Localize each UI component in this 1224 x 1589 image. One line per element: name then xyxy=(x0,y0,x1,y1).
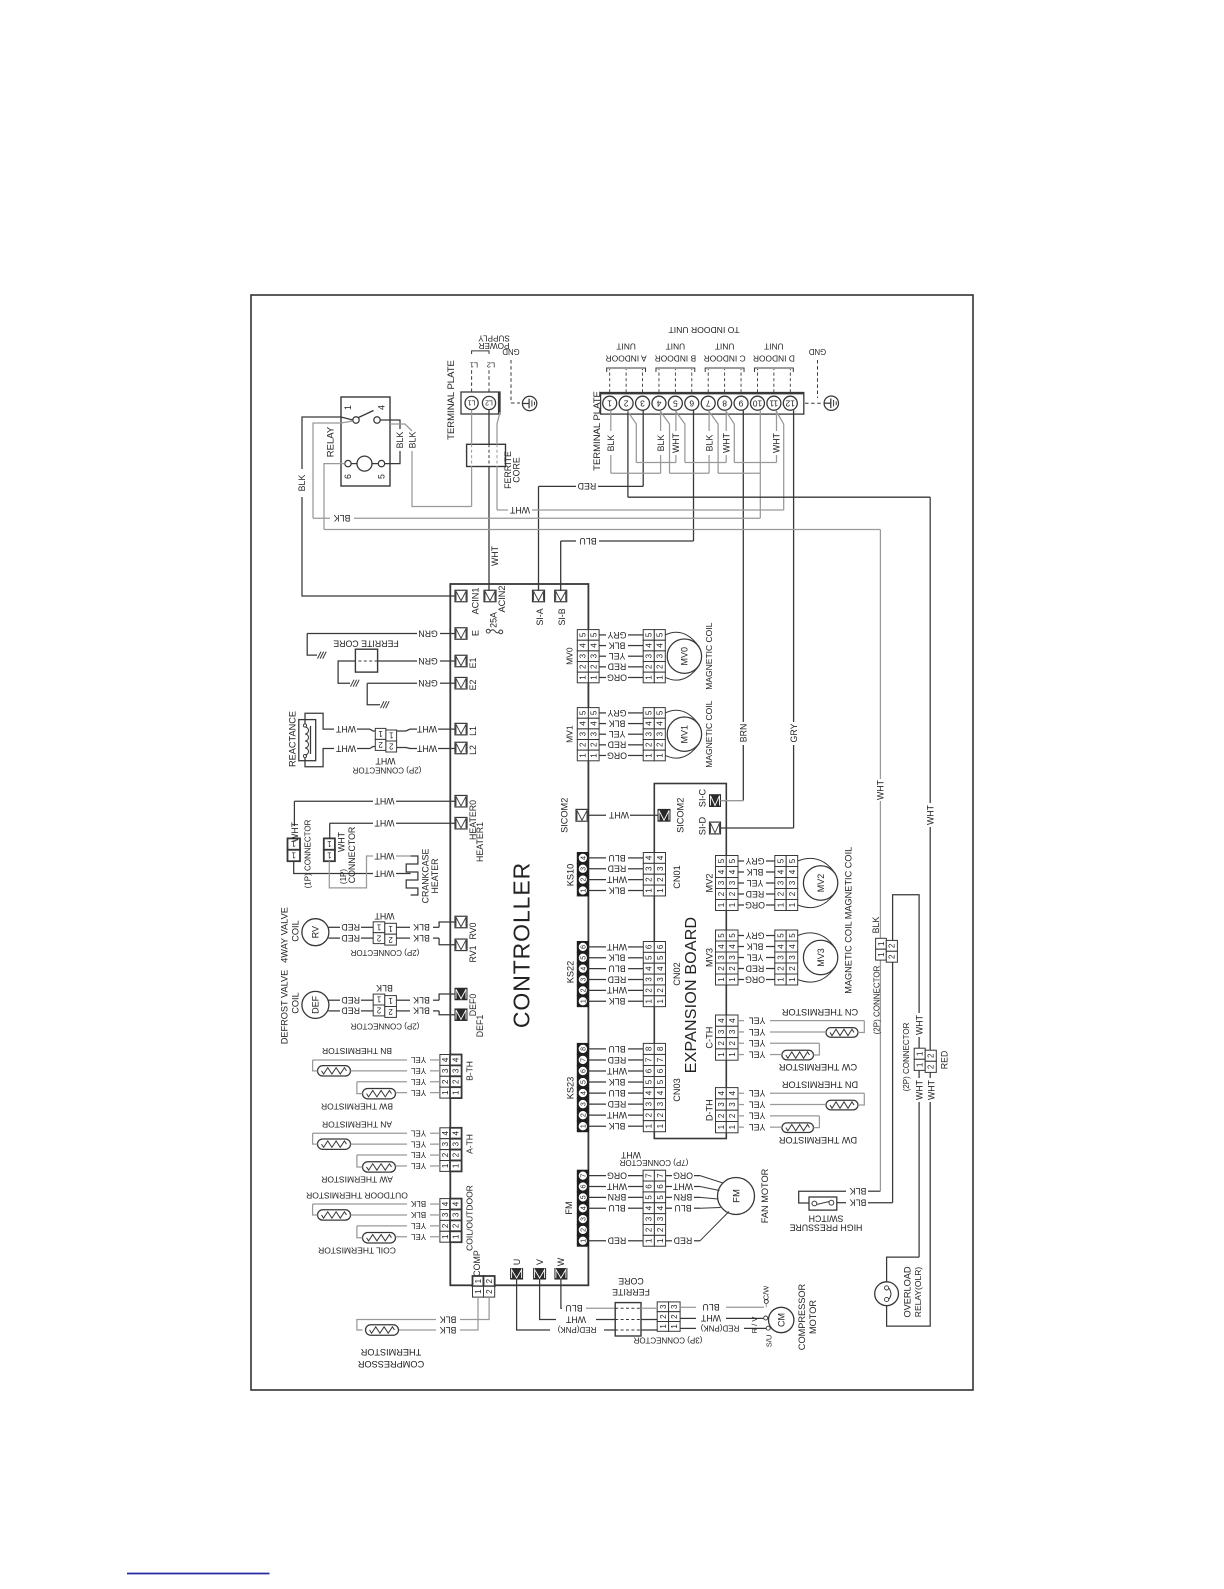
svg-text:WHT: WHT xyxy=(374,851,395,861)
wire switch return up through 2P xyxy=(892,962,894,1203)
relay contact 4 xyxy=(374,417,380,423)
svg-text:5: 5 xyxy=(656,955,665,960)
svg-text:CONTROLLER: CONTROLLER xyxy=(508,862,534,1028)
connector COIL/OUTDOOR board side xyxy=(450,1199,462,1210)
svg-text:A INDOOR: A INDOOR xyxy=(606,353,647,363)
svg-text:BLK: BLK xyxy=(609,996,626,1006)
svg-text:1: 1 xyxy=(441,1163,450,1168)
svg-text:1: 1 xyxy=(788,977,797,982)
svg-text:(2P) CONNECTOR: (2P) CONNECTOR xyxy=(352,766,421,775)
wire MV1 pin4 BLK xyxy=(599,723,606,725)
svg-text:3: 3 xyxy=(452,1141,461,1146)
dashed GND lead (indoor) xyxy=(817,360,819,398)
svg-text:4: 4 xyxy=(717,944,726,949)
svg-text:4: 4 xyxy=(776,944,785,949)
svg-text:6: 6 xyxy=(580,1184,587,1188)
indoor terminal 6 xyxy=(685,396,699,410)
svg-text:2: 2 xyxy=(645,988,654,993)
svg-text:BLU: BLU xyxy=(579,536,596,546)
svg-text:4: 4 xyxy=(656,1205,665,1210)
svg-text:COIL: COIL xyxy=(290,992,300,1013)
svg-text:3: 3 xyxy=(579,731,588,736)
svg-text:RED(PNK): RED(PNK) xyxy=(557,1325,596,1334)
svg-text:MAGNETIC COIL: MAGNETIC COIL xyxy=(843,847,853,920)
svg-text:BLK: BLK xyxy=(704,435,714,452)
svg-text:4: 4 xyxy=(776,869,785,874)
svg-text:RED: RED xyxy=(746,889,765,899)
connector MV2 board side xyxy=(716,856,727,867)
wire GRN E to chassis ground xyxy=(440,633,455,635)
svg-text:1: 1 xyxy=(441,1090,450,1095)
pin SI-C xyxy=(710,795,721,807)
svg-text:8: 8 xyxy=(722,398,727,408)
AN THERMISTOR thermistor element xyxy=(318,1139,351,1149)
svg-text:1: 1 xyxy=(441,1234,450,1239)
2P connector (right upper) xyxy=(876,938,887,949)
svg-text:WHT: WHT xyxy=(927,1079,937,1100)
svg-text:SI-B: SI-B xyxy=(557,608,567,625)
svg-text:BLK: BLK xyxy=(413,933,430,943)
wire MV2 pin2 RED xyxy=(738,893,744,895)
indoor terminal 8 xyxy=(718,396,732,410)
wire DEF to 2P (RED) top xyxy=(328,999,340,1001)
svg-text:5: 5 xyxy=(645,1195,654,1200)
svg-text:3: 3 xyxy=(656,731,665,736)
svg-text:1: 1 xyxy=(645,675,654,680)
svg-text:BW THERMISTOR: BW THERMISTOR xyxy=(321,1101,393,1111)
svg-text:3: 3 xyxy=(656,1101,665,1106)
svg-text:COIL/OUTDOOR: COIL/OUTDOOR xyxy=(465,1185,475,1251)
svg-text:WHT: WHT xyxy=(606,1181,627,1191)
svg-text:BLK: BLK xyxy=(609,718,626,728)
svg-text:3: 3 xyxy=(452,1068,461,1073)
svg-text:D-TH: D-TH xyxy=(704,1099,714,1121)
magnetic coil MV2 xyxy=(803,866,837,900)
svg-text:RED: RED xyxy=(608,1236,627,1246)
wire OLR bottom loop to t2 line xyxy=(887,1102,931,1326)
svg-text:4: 4 xyxy=(645,966,654,971)
2P connector (right lower) xyxy=(914,1048,925,1059)
svg-text:BRN: BRN xyxy=(738,724,748,743)
svg-text:GRY: GRY xyxy=(607,708,626,718)
wire MV2 pin1 ORG xyxy=(738,904,744,906)
svg-text:L1: L1 xyxy=(470,360,478,369)
svg-text:2: 2 xyxy=(788,966,797,971)
svg-text:BLK: BLK xyxy=(413,1006,430,1016)
svg-text:1: 1 xyxy=(728,1124,737,1129)
wire 2P to L1 pin xyxy=(397,730,406,732)
svg-text:5: 5 xyxy=(717,858,726,863)
connector C-TH board side xyxy=(716,1015,727,1026)
svg-text:2: 2 xyxy=(670,1314,679,1319)
svg-text:1: 1 xyxy=(877,952,886,957)
svg-text:1: 1 xyxy=(728,977,737,982)
svg-text:1: 1 xyxy=(659,1324,668,1329)
svg-text:DN THERMISTOR: DN THERMISTOR xyxy=(782,1079,859,1089)
svg-text:EXPANSION BOARD: EXPANSION BOARD xyxy=(683,917,700,1074)
svg-text:2: 2 xyxy=(579,664,588,669)
svg-text:UNIT: UNIT xyxy=(764,342,784,352)
wire FM RED (left) xyxy=(588,1240,606,1242)
wire U RED(PNK) xyxy=(517,1279,550,1330)
svg-text:1: 1 xyxy=(291,851,296,860)
pin SI-A xyxy=(533,590,545,602)
svg-text:4: 4 xyxy=(645,1090,654,1095)
wire KS22 pin 2 WHT xyxy=(588,989,606,991)
svg-text:B INDOOR: B INDOOR xyxy=(655,353,696,363)
svg-text:2: 2 xyxy=(728,891,737,896)
svg-text:YEL: YEL xyxy=(410,1139,426,1148)
svg-text:(3P) CONNECTOR: (3P) CONNECTOR xyxy=(633,1336,702,1345)
svg-text:CW THERMISTOR: CW THERMISTOR xyxy=(779,1062,858,1072)
wire MV3 pin2 RED xyxy=(738,968,744,970)
svg-text:5: 5 xyxy=(580,956,587,960)
wire t7 BLK drop xyxy=(708,410,710,431)
wire SICOM2 WHT xyxy=(588,814,606,816)
high pressure switch box xyxy=(809,1197,837,1210)
pin ACIN1 xyxy=(455,590,467,602)
svg-text:WHT: WHT xyxy=(606,985,627,995)
wire FM BLU (right) to motor xyxy=(666,1207,672,1209)
svg-text:3: 3 xyxy=(645,1216,654,1221)
terminal plate (power supply) xyxy=(461,392,500,414)
2P connector (DEF) xyxy=(373,994,385,1005)
indoor terminal 9 xyxy=(734,396,748,410)
svg-text:5: 5 xyxy=(590,710,599,715)
ferrite core (E1 line) xyxy=(355,649,377,672)
3P connector xyxy=(657,1302,668,1312)
wire 1P-2 to crankcase heater (top) xyxy=(329,856,373,888)
svg-text:MV2: MV2 xyxy=(816,874,826,893)
pin E xyxy=(455,628,467,640)
svg-text:(2P) CONNECTOR: (2P) CONNECTOR xyxy=(872,965,881,1034)
svg-text:GRN: GRN xyxy=(418,656,438,666)
svg-text:4: 4 xyxy=(452,1130,461,1135)
svg-text:BLK: BLK xyxy=(297,475,307,492)
svg-text:4: 4 xyxy=(580,1206,587,1210)
svg-text:REACTANCE: REACTANCE xyxy=(287,711,297,767)
wire B-TH pin1 xyxy=(430,1092,440,1094)
wire switch to 2P BLK xyxy=(837,1202,846,1204)
svg-text:COMPRESSOR: COMPRESSOR xyxy=(797,1283,807,1350)
CM terminal S/U xyxy=(766,1326,770,1330)
wire D-TH pin1 YEL xyxy=(738,1126,744,1128)
svg-text:BLK: BLK xyxy=(747,867,764,877)
svg-text:YEL: YEL xyxy=(747,952,764,962)
svg-text:5: 5 xyxy=(728,933,737,938)
svg-text:3: 3 xyxy=(645,1101,654,1106)
svg-text:D INDOOR: D INDOOR xyxy=(753,353,795,363)
svg-text:WHT: WHT xyxy=(914,1079,924,1100)
svg-text:MV1: MV1 xyxy=(565,725,575,743)
svg-text:YEL: YEL xyxy=(609,651,626,661)
svg-text:WHT: WHT xyxy=(606,1110,627,1120)
wire MV1 pin5 GRY xyxy=(599,712,606,714)
wire B-TH pin2 xyxy=(430,1081,440,1083)
2P connector (RV) xyxy=(373,922,385,933)
WHT power bus xyxy=(497,509,508,511)
svg-text:SICOM2: SICOM2 xyxy=(675,798,685,833)
svg-text:8: 8 xyxy=(645,1046,654,1051)
svg-text:GRY: GRY xyxy=(745,856,764,866)
svg-text:COMPRESSOR: COMPRESSOR xyxy=(357,1359,424,1369)
wire MV3 pin5 GRY xyxy=(738,935,744,937)
svg-text:2: 2 xyxy=(888,954,897,959)
svg-text:4: 4 xyxy=(656,855,665,860)
svg-text:1: 1 xyxy=(717,1052,726,1057)
svg-text:4: 4 xyxy=(590,643,599,648)
svg-text:RELAY(OLR): RELAY(OLR) xyxy=(913,1267,923,1318)
svg-text:2: 2 xyxy=(776,966,785,971)
svg-text:CN03: CN03 xyxy=(672,1078,682,1102)
svg-text:ACIN2: ACIN2 xyxy=(497,585,507,612)
svg-text:WHT: WHT xyxy=(374,868,395,878)
connector MV3 harness side xyxy=(775,930,786,941)
svg-text:1: 1 xyxy=(590,753,599,758)
wire 3P to CM RED(PNK) xyxy=(680,1327,696,1329)
wire COIL/OUTDOOR pin1 xyxy=(430,1236,440,1238)
wire KS10 pin 2 WHT xyxy=(588,879,606,881)
svg-text:5: 5 xyxy=(788,858,797,863)
svg-text:MAGNETIC COIL: MAGNETIC COIL xyxy=(704,700,714,767)
DN THERMISTOR element xyxy=(826,1100,858,1110)
ferrite core (power lines) xyxy=(467,444,506,466)
svg-text:BLK: BLK xyxy=(850,1198,867,1208)
indoor terminal 10 xyxy=(750,396,764,410)
svg-text:GRN: GRN xyxy=(418,628,438,638)
pin E2 xyxy=(455,677,467,689)
svg-text:AW THERMISTOR: AW THERMISTOR xyxy=(321,1175,393,1185)
svg-text:ORG: ORG xyxy=(745,900,765,910)
svg-text:3: 3 xyxy=(728,1029,737,1034)
svg-text:4: 4 xyxy=(441,1130,450,1135)
svg-text:1: 1 xyxy=(656,1238,665,1243)
svg-text:3: 3 xyxy=(580,1217,587,1221)
connector A-TH board side xyxy=(450,1128,462,1139)
svg-text:MV1: MV1 xyxy=(680,725,690,744)
wire HEATER1 to 1P connector 2 xyxy=(396,822,455,824)
svg-text:BLK: BLK xyxy=(413,995,430,1005)
wire MV3 pin3 YEL xyxy=(738,957,744,959)
svg-text:1: 1 xyxy=(645,1238,654,1243)
svg-text:YEL: YEL xyxy=(410,1088,426,1097)
connector B-TH harness side xyxy=(440,1055,450,1066)
svg-text:SI-D: SI-D xyxy=(697,816,707,835)
svg-text:HEATER1: HEATER1 xyxy=(475,822,485,862)
connector 7P harness pair xyxy=(643,1170,654,1181)
svg-text:L2: L2 xyxy=(468,745,478,755)
svg-text:1: 1 xyxy=(327,851,332,860)
svg-text:WHT: WHT xyxy=(374,818,395,828)
svg-text:GRY: GRY xyxy=(745,930,764,940)
svg-text:3: 3 xyxy=(645,653,654,658)
compressor thermistor element xyxy=(366,1325,399,1335)
svg-text:2: 2 xyxy=(452,1079,461,1084)
pin SICOM2 (expansion) xyxy=(658,809,670,821)
svg-text:WHT: WHT xyxy=(374,796,395,806)
magnetic coil MV3 xyxy=(803,940,837,974)
svg-text:RED: RED xyxy=(578,481,597,491)
svg-text:A-TH: A-TH xyxy=(465,1134,475,1154)
svg-text:2: 2 xyxy=(728,966,737,971)
svg-text:DEF: DEF xyxy=(311,995,321,1014)
svg-text:WHT: WHT xyxy=(876,779,886,800)
svg-text:6: 6 xyxy=(656,1068,665,1073)
svg-text:DW THERMISTOR: DW THERMISTOR xyxy=(779,1135,858,1145)
connector MV1 harness side xyxy=(643,708,654,719)
wire t2 return up xyxy=(929,827,931,1050)
page border frame xyxy=(251,295,973,1390)
earth ground symbol (indoor) xyxy=(824,396,838,410)
connector FM (controller edge) xyxy=(577,1170,588,1181)
svg-text:C/W: C/W xyxy=(762,1285,771,1301)
4-way valve coil RV xyxy=(302,919,329,946)
svg-text:YEL: YEL xyxy=(410,1150,426,1159)
ferrite core (3P lines) xyxy=(615,1303,641,1336)
pin DEF1 xyxy=(455,1009,467,1021)
svg-text:1: 1 xyxy=(645,888,654,893)
svg-text:WHT: WHT xyxy=(416,743,437,753)
wire t7 jog xyxy=(709,411,718,473)
svg-text:1: 1 xyxy=(452,1234,461,1239)
svg-text:1: 1 xyxy=(474,1278,483,1283)
svg-text:WHT: WHT xyxy=(490,545,500,566)
wire D-TH pin4 YEL xyxy=(738,1092,744,1094)
defrost valve coil DEF xyxy=(302,991,329,1018)
svg-text:ORG: ORG xyxy=(745,974,765,984)
svg-text:1: 1 xyxy=(656,998,665,1003)
wire t4 jog xyxy=(660,411,669,473)
svg-text:5: 5 xyxy=(645,632,654,637)
svg-text:BLK: BLK xyxy=(606,435,616,452)
pin DEF0 xyxy=(455,988,467,1000)
svg-text:1: 1 xyxy=(607,398,612,408)
connector D-TH board side xyxy=(716,1088,727,1099)
dashed GND lead (power) xyxy=(510,360,512,403)
svg-text:MV2: MV2 xyxy=(704,874,714,893)
svg-text:6: 6 xyxy=(689,398,694,408)
pin HEATER1 xyxy=(455,817,467,829)
wire KS23 pin 3 RED xyxy=(588,1103,606,1105)
svg-text:2: 2 xyxy=(623,398,628,408)
svg-text:UNIT: UNIT xyxy=(666,342,686,352)
svg-text:L2: L2 xyxy=(485,399,493,406)
AW THERMISTOR thermistor element xyxy=(363,1162,396,1172)
wire KS22 pin 3 RED xyxy=(588,979,606,981)
pin U xyxy=(511,1269,523,1280)
wire t3 drop (RED) xyxy=(642,410,644,486)
svg-text:6: 6 xyxy=(645,1068,654,1073)
svg-text:WHT: WHT xyxy=(772,432,782,453)
svg-text:1: 1 xyxy=(788,902,797,907)
svg-text:2: 2 xyxy=(717,1040,726,1045)
indoor terminal 2 xyxy=(619,396,633,410)
connector CN01 (expansion edge) xyxy=(643,853,654,864)
crankcase heater element xyxy=(406,856,418,895)
svg-text:2: 2 xyxy=(927,1053,936,1058)
svg-text:RED: RED xyxy=(746,963,765,973)
svg-text:RED: RED xyxy=(674,1236,693,1246)
indoor terminal 4 xyxy=(652,396,666,410)
svg-text:RED: RED xyxy=(341,933,360,943)
svg-text:2: 2 xyxy=(656,988,665,993)
svg-text:COIL THERMISTOR: COIL THERMISTOR xyxy=(318,1246,396,1256)
svg-text:TO INDOOR UNIT: TO INDOOR UNIT xyxy=(668,325,740,335)
svg-text:BLU: BLU xyxy=(608,1203,625,1213)
wire D-TH pin3 YEL xyxy=(738,1104,744,1106)
svg-text:YEL: YEL xyxy=(749,1015,766,1025)
svg-text:1: 1 xyxy=(645,998,654,1003)
svg-text:4: 4 xyxy=(580,1091,587,1095)
svg-text:3: 3 xyxy=(656,977,665,982)
svg-text:1: 1 xyxy=(877,941,886,946)
svg-text:FM: FM xyxy=(731,1189,742,1203)
BLK power bus (from relay) xyxy=(313,517,330,519)
svg-text:6: 6 xyxy=(656,944,665,949)
svg-text:FERRITE: FERRITE xyxy=(612,1287,650,1297)
svg-text:RELAY: RELAY xyxy=(325,426,336,457)
wire KS22 pin 4 BLU xyxy=(588,968,606,970)
svg-text:GND: GND xyxy=(808,347,826,356)
connector MV0 controller side xyxy=(577,630,588,641)
svg-text:7: 7 xyxy=(645,1057,654,1062)
svg-text:BLK: BLK xyxy=(609,1121,626,1131)
svg-text:BLK: BLK xyxy=(656,435,666,452)
svg-text:2: 2 xyxy=(580,1113,587,1117)
svg-text:5: 5 xyxy=(645,1079,654,1084)
svg-text:CONNECTOR: CONNECTOR xyxy=(347,827,357,884)
relay coil terminal 5 xyxy=(378,460,384,466)
svg-text:9: 9 xyxy=(738,398,743,408)
svg-text:1: 1 xyxy=(579,753,588,758)
svg-text:(1P) CONNECTOR: (1P) CONNECTOR xyxy=(303,819,312,888)
pin SICOM2 (controller) xyxy=(576,809,588,821)
svg-text:WHT: WHT xyxy=(672,1181,693,1191)
svg-text:YEL: YEL xyxy=(410,1055,426,1064)
svg-text:7: 7 xyxy=(706,398,711,408)
connector CN02 (expansion edge) xyxy=(643,942,654,953)
svg-text:ORG: ORG xyxy=(607,672,627,682)
svg-text:5: 5 xyxy=(776,933,785,938)
svg-text:COMP: COMP xyxy=(472,1250,482,1277)
svg-text:1: 1 xyxy=(717,902,726,907)
wire DEF to 2P (RED) bottom xyxy=(328,1010,340,1012)
svg-text:3: 3 xyxy=(659,1304,668,1309)
wire L2 plate edge to WHT bus xyxy=(497,412,500,444)
pin W xyxy=(555,1269,567,1280)
svg-text:RED: RED xyxy=(341,995,360,1005)
wire t2 jog to WHT chain xyxy=(628,411,637,463)
svg-text:BLK: BLK xyxy=(408,432,418,449)
svg-text:KS10: KS10 xyxy=(565,864,575,886)
svg-text:RED(PNK): RED(PNK) xyxy=(700,1324,739,1333)
OUTDOOR THERMISTOR thermistor element xyxy=(318,1210,351,1220)
magnetic coil MV0 xyxy=(667,639,701,673)
indoor terminal 1 xyxy=(603,396,617,410)
indoor terminal 12 xyxy=(783,396,797,410)
svg-text:ACIN1: ACIN1 xyxy=(470,587,480,614)
svg-text:1: 1 xyxy=(916,1051,925,1056)
svg-text:1: 1 xyxy=(388,996,393,1005)
svg-text:BLK: BLK xyxy=(440,1325,457,1335)
svg-text:4: 4 xyxy=(728,944,737,949)
svg-text:BLK: BLK xyxy=(410,1210,426,1219)
wire KS23 pin 4 BLU xyxy=(588,1092,606,1094)
svg-text:2: 2 xyxy=(788,891,797,896)
svg-text:MV0: MV0 xyxy=(680,647,690,666)
wire KS23 pin 6 WHT xyxy=(588,1070,606,1072)
svg-text:BLU: BLU xyxy=(608,853,625,863)
